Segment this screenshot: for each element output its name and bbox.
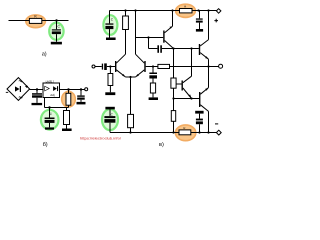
label minus (bridge left) [6,91,8,94]
transistor Q1 emitter arrow [122,74,125,77]
wire: R2 to ground (circuit b) [66,125,68,129]
transistor Q5 emitter [200,53,208,60]
capacitor adj top plate (circuit b) [45,118,55,120]
highlight ellipse around resistor R (circuit a) [26,15,46,28]
svg-text:R: R [183,126,185,130]
resistor R series in top rail (highlighted) [180,9,193,13]
resistor R2 vertical (circuit b divider bottom) [64,111,70,125]
wire: adj horizontal (circuit b) [45,107,69,109]
capacitor feedback bottom plate [149,75,157,78]
node: junction dot bias line left [172,47,174,49]
wire: stub rail to top-left cap (circuit v) [109,11,111,24]
transistor Q4 driver: base bar [182,81,183,91]
wire: feedback tap down [152,67,154,73]
wire: bottom supply rail (circuit v) [110,132,216,134]
svg-text:б): б) [43,141,48,148]
node: junction dot comp-cap tap [147,36,149,38]
capacitor decoupling top: thick plate [196,21,203,23]
wire: bottom-left cap to bottom rail [109,123,111,133]
wire: regulator output (circuit b) [60,89,85,91]
ground (circuit b output cap) [77,102,86,105]
ground (circuit v bottom-left cap, bar up) [105,107,114,110]
node: junction dot at output cap (circuit b) [80,88,82,90]
wire: coupling cap to T1 base [107,66,115,68]
node: junction dot tail [129,76,131,78]
transistor Q6 collector (down) [200,105,208,112]
wire: comp cap branch horizontal [149,48,158,50]
svg-text:R: R [184,4,186,8]
wire: emitters join [126,76,136,78]
node: junction dot feedback [152,65,154,67]
resistor bias chain upper [171,78,176,88]
wire: output cap to ground (circuit b) [80,100,82,102]
highlight ellipse around resistor R (circuit v top rail) [176,4,196,17]
highlight ellipse around capacitor C (circuit v bottom-left supply cap) [102,109,118,130]
wire: Q5 collector to top rail [208,11,210,40]
diode inside bridge: triangle [15,86,20,91]
ground (circuit v bias resistor) [105,92,115,95]
node: top rail junction dots [124,9,126,11]
resistor R (circuit a) [29,18,41,23]
capacitor bottom plate (circuit v top-left) [105,26,113,29]
transistor Q3 emitter arrow [170,26,173,28]
highlight ellipse around resistor (circuit b LM317 adj divider) [62,91,76,107]
capacitor input bottom plate (circuit b) [32,95,42,97]
wire: Q4 collector up to bias line [191,49,193,77]
wire: input cap to ground (circuit b) [36,98,38,103]
capacitor top plate (circuit v top-left) [105,23,113,24]
wire: stub output wire to resistor (circuit b) [68,90,70,94]
wire: feedback cap to resistor [152,79,154,84]
wire: stub down to bias resistor [109,67,111,74]
LM317 output arrow (black) [53,86,57,91]
resistor bias chain lower [171,111,175,122]
wire: stub rail to load resistor (circuit v) [125,11,127,17]
wire: ground bar to bottom-left cap [109,109,111,116]
wire: output line across to terminal [170,66,219,68]
wire: tail down [130,77,132,114]
ground (circuit b adj cap) [45,127,54,129]
capacitor C top plate (circuit a) [52,29,61,30]
resistor driver base stub [176,83,182,85]
wire: V1 vertical bias chain top [173,49,175,79]
regulator U1 LM317 box [43,83,60,98]
capacitor decoupling top: thin plate [196,18,203,19]
wire: Q3 collector to top rail [172,11,174,27]
wire: Q5 emitter to output node [208,59,210,66]
capacitor comp right plate [160,45,162,53]
wire: Q2 base right [146,66,158,68]
wire: comp cap to bias line [162,48,199,50]
diode inside bridge: cathode bar [20,86,21,92]
ground (feedback network) [149,97,158,100]
transistor Q1 collector [116,54,125,63]
wire: Adj pin down (circuit b) [44,98,46,108]
wire: stub down to adj cap (circuit b) [49,108,51,118]
node: junction dot (circuit a) [55,19,57,21]
capacitor feedback top plate [149,73,157,75]
label plus (bridge right) [25,85,28,88]
wire: Q6 collector to bottom rail [208,111,210,132]
label ~ bottom (bridge) [19,97,23,98]
resistor tail vertical (circuit v) [128,114,134,127]
wire: tail resistor to bottom rail [130,128,132,133]
svg-text:а): а) [42,50,47,57]
highlight ellipse around capacitor C (circuit a) [49,23,63,40]
wire: circuit a horizontal line [9,20,69,22]
label plus supply [214,19,218,23]
wire: resistor bottom to adj wire (circuit b) [68,105,70,107]
transistor Q5 emitter arrow [205,56,208,59]
svg-text:в): в) [159,141,164,148]
transistor Q5 output top: base bar [199,44,200,55]
capacitor output top plate (circuit b) [77,95,85,96]
ground (circuit b R2) [62,129,72,132]
wire: stub top rail to decoupling cap [199,11,201,19]
transistor Q3 collector [165,26,173,33]
svg-text:Adj: Adj [50,93,55,97]
capacitor decoupling bottom: thick plate [196,121,203,124]
transistor Q6 output bottom: base bar [199,92,200,107]
resistor feedback horizontal (circuit v) [158,64,170,68]
node: junction dot at input cap (circuit b) [36,88,38,90]
wire: top supply rail (circuit v) [110,10,217,12]
terminal: input (circuit v) [92,65,95,68]
transistor Q5 collector [200,40,208,46]
resistor vertical load of T1 (circuit v) [123,16,129,30]
capacitor output bottom plate (circuit b) [77,98,85,100]
wire: feedback resistor to ground [152,93,154,97]
node: junction dot driver line [172,97,174,99]
resistor R1 vertical (circuit b, highlighted) [66,93,71,105]
LM317 output arrow bar [57,86,58,91]
transistor Q4 emitter [183,88,192,99]
transistor Q2 emitter arrow [136,74,139,77]
capacitor coupling right plate [104,63,107,70]
wire: Q6 emitter to output node [208,67,210,88]
highlight ellipse around capacitor C (circuit b adj bypass) [41,110,59,130]
wire: V1 vertical to bottom rail [173,121,175,132]
transistor Q2 emitter [136,70,145,77]
ground (circuit a) [51,42,62,45]
capacitor decoupling bottom: thin plate [196,119,203,121]
wire: decoupling cap to ground [199,23,201,29]
wire: comp cap branch down [148,38,150,49]
highlight ellipse around capacitor C (circuit v top-left supply cap) [103,15,117,35]
transistor Q6 emitter (up) [200,88,208,95]
node: junction dot at R divider top (circuit b) [67,88,69,90]
wire: stub to output cap (circuit b) [80,90,82,96]
resistor bias vertical (circuit v input) [108,74,113,86]
ground (bottom decoupling cap, bar up) [195,111,203,114]
wire: bridge output to regulator (circuit b) [30,89,43,91]
terminal: plus supply diamond [216,9,221,14]
ground (top decoupling cap) [196,29,203,32]
wire: horizontal to VAS base (circuit v) [136,37,164,39]
transistor Q2 collector [136,54,145,63]
wire: bottom decoupling cap to rail [199,124,201,132]
node: junction dot bias line right [190,47,192,49]
resistor feedback vertical [150,83,155,93]
wire: bias resistor to ground [109,86,111,93]
wire: stub to input cap (circuit b) [36,90,38,94]
wire: input to coupling cap [95,66,102,68]
node: junction dot output node [207,65,209,67]
terminal: minus supply diamond [216,130,221,135]
transistor Q2 diff pair right: base bar [144,61,145,72]
wire: stub adj wire to R2 (circuit b) [66,108,68,111]
wire: driver line horizontal [174,98,200,100]
wire: capacitor C to ground (circuit a) [56,34,58,42]
node: bottom rail junction dots [129,131,131,133]
capacitor adj bottom plate (circuit b) [45,120,55,123]
transistor Q4 emitter arrow [188,94,191,97]
bridge rectifier diamond (circuit b) [7,78,30,101]
resistor R series in bottom rail (highlighted) [179,130,191,135]
capacitor bottom-left: thick plate [104,119,115,123]
transistor Q3 emitter [165,41,174,49]
transistor Q3 VAS: base bar [163,31,164,43]
node: junction dot adj/cap (circuit b) [48,106,50,108]
svg-text:https://electroclub.info/: https://electroclub.info/ [80,136,121,140]
ground (circuit b input cap) [32,103,43,105]
capacitor coupling left plate [102,64,103,70]
wire: vertical rail to T2 collector and VAS base tap [135,11,137,55]
capacitor comp left plate [157,45,159,53]
capacitor input top plate (circuit b) [32,93,42,95]
terminal: circuit b output [85,88,88,91]
wire: adj cap to ground (circuit b) [49,123,51,128]
wire: ground bar to bottom decoupling cap [199,114,201,119]
wire: cap to ground (circuit v top-left) [109,29,111,37]
node: junction dot driver emitter [190,97,192,99]
transistor Q6 emitter arrow [205,88,208,91]
wire: load resistor down to T1 collector [125,30,127,55]
terminal: output (circuit v) [219,64,223,68]
LM317 input arrow (white) [45,86,50,91]
capacitor C bottom plate (circuit a) [52,31,61,34]
node: junction dot bias resistor [109,65,111,67]
svg-text:LM317: LM317 [46,79,55,83]
ground (circuit v top-left cap) [106,38,116,41]
label ~ top (bridge) [19,81,23,82]
label minus supply [215,123,218,124]
transistor Q1 emitter [116,70,125,77]
transistor Q4 collector [183,76,192,83]
transistor Q1 diff pair left: base bar [115,61,116,72]
wire: capacitor C stub down (circuit a) [56,21,58,30]
capacitor bottom-left: thin plate [104,116,115,118]
highlight ellipse around resistor R (circuit v bottom rail) [175,125,195,141]
wire: V1 vertical bias chain middle [173,88,175,110]
